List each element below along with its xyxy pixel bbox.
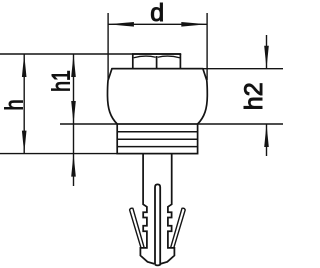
- hex insert left edge: [132, 54, 134, 69]
- dimension h2 arrow down (outside above): [264, 46, 269, 69]
- knurl line 1: [117, 131, 197, 133]
- dimension h2 arrow up (outside below): [264, 124, 269, 147]
- knob dome outline: [107, 69, 207, 124]
- anchor sleeve left edge with barbs: [140, 154, 154, 264]
- extension line dome top to h2: [203, 68, 283, 70]
- extension line dome bottom left (h1): [60, 123, 117, 125]
- hex chamfer arc right face: [158, 56, 180, 58]
- hex insert top line: [132, 53, 181, 55]
- svg-text:h1: h1: [47, 70, 75, 92]
- hex insert corner divider: [156, 56, 158, 69]
- dimension h2 line upper: [266, 35, 268, 69]
- dimension d extension line right: [206, 13, 208, 80]
- anchor spring wing left: [130, 208, 145, 248]
- extension line dome bottom right (h2): [198, 123, 283, 125]
- knurl line 2: [117, 138, 197, 140]
- hex chamfer arc left face: [134, 56, 156, 58]
- dimension d arrow left: [108, 22, 134, 27]
- anchor sleeve right edge with barbs: [160, 154, 174, 264]
- dimension h line: [23, 54, 25, 154]
- svg-text:d: d: [150, 0, 164, 27]
- dimension h1 line: [73, 54, 75, 186]
- svg-text:h: h: [0, 99, 28, 110]
- dimension d dimension line: [108, 23, 207, 25]
- collar height arrow up (outside): [71, 154, 76, 177]
- extension line collar bottom (h): [0, 153, 117, 155]
- dimension h2 line lower: [266, 124, 268, 156]
- extension line top of hex (h / h1 datum): [0, 53, 180, 55]
- dimension h arrow up: [22, 54, 27, 77]
- knob dome top edge: [112, 68, 203, 70]
- svg-text:h2: h2: [240, 82, 268, 110]
- anchor centre pin: [155, 184, 160, 265]
- knurled collar body: [117, 124, 197, 154]
- dimension h1 arrow down: [71, 101, 76, 124]
- knurl line 3: [117, 146, 197, 148]
- dimension d extension line left: [107, 13, 109, 80]
- dimension h1 arrow up: [71, 54, 76, 77]
- hex insert right edge: [179, 54, 181, 69]
- anchor spring wing right: [171, 208, 186, 248]
- dimension d arrow right: [181, 22, 207, 27]
- dimension h arrow down: [22, 131, 27, 154]
